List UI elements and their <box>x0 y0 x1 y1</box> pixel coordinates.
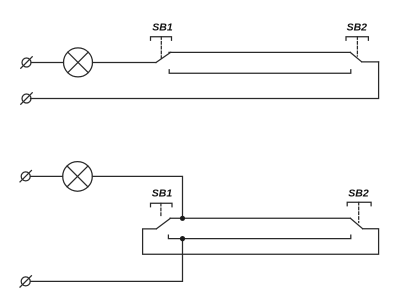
svg-text:SB1: SB1 <box>152 22 173 34</box>
svg-text:SB1: SB1 <box>152 188 173 200</box>
svg-text:SB2: SB2 <box>347 22 368 34</box>
svg-text:SB2: SB2 <box>348 188 369 200</box>
